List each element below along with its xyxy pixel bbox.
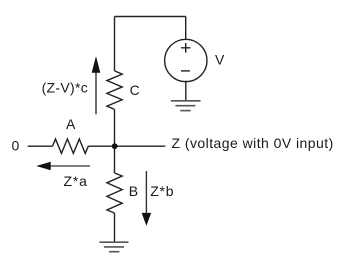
svg-text:C: C xyxy=(130,82,140,98)
svg-text:Z*b: Z*b xyxy=(150,183,174,199)
svg-text:(Z-V)*c: (Z-V)*c xyxy=(42,79,88,95)
svg-text:0: 0 xyxy=(12,138,20,154)
svg-text:V: V xyxy=(215,52,225,68)
svg-text:B: B xyxy=(129,183,138,199)
svg-text:A: A xyxy=(66,116,76,132)
svg-text:Z (voltage with 0V input): Z (voltage with 0V input) xyxy=(172,135,334,151)
svg-text:Z*a: Z*a xyxy=(64,173,88,189)
